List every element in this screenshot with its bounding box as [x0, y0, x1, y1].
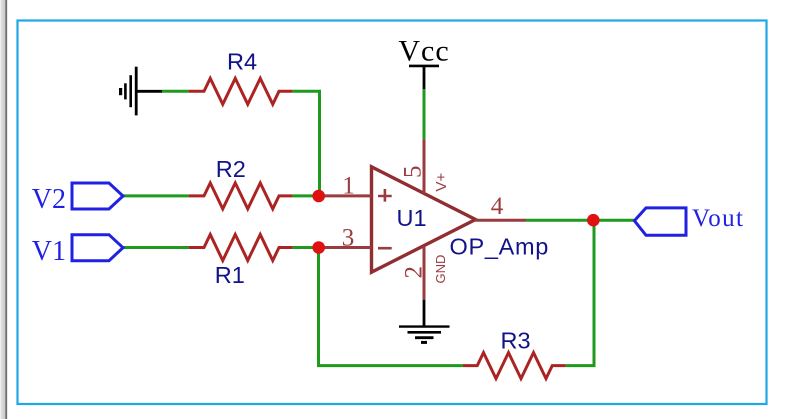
svg-text:3: 3: [342, 224, 355, 251]
svg-text:5: 5: [399, 166, 426, 179]
svg-text:R2: R2: [216, 156, 246, 182]
svg-text:4: 4: [491, 193, 504, 220]
svg-text:OP_Amp: OP_Amp: [450, 234, 550, 260]
svg-text:R1: R1: [215, 262, 245, 288]
svg-text:GND: GND: [433, 255, 448, 284]
svg-text:Vout: Vout: [692, 205, 744, 232]
svg-text:V+: V+: [433, 172, 450, 191]
svg-text:1: 1: [342, 172, 355, 199]
svg-text:Vcc: Vcc: [398, 35, 449, 68]
svg-text:R4: R4: [227, 49, 257, 75]
svg-text:V1: V1: [32, 236, 66, 267]
svg-text:U1: U1: [397, 205, 427, 231]
svg-text:V2: V2: [32, 184, 66, 215]
svg-text:2: 2: [401, 266, 428, 279]
svg-text:R3: R3: [500, 327, 530, 353]
